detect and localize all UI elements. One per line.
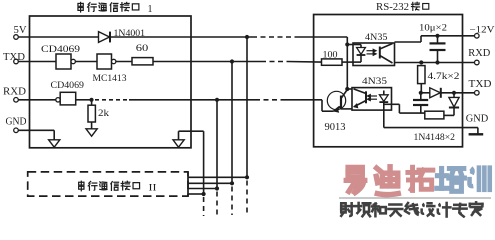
svg-text:4N35: 4N35 [362, 77, 387, 87]
svg-text:RXD: RXD [468, 48, 490, 59]
svg-text:GND: GND [6, 116, 27, 127]
svg-text:RS-232: RS-232 [376, 2, 409, 13]
svg-text:4.7k×2: 4.7k×2 [428, 72, 460, 82]
svg-text:2k: 2k [98, 109, 109, 119]
svg-text:RXD: RXD [3, 86, 26, 97]
svg-text:10μ×2: 10μ×2 [419, 23, 447, 33]
svg-text:TXD: TXD [469, 79, 492, 90]
svg-text:9013: 9013 [325, 122, 346, 133]
svg-text:GND: GND [466, 114, 489, 125]
svg-text:MC1413: MC1413 [93, 74, 127, 84]
svg-text:4N35: 4N35 [365, 33, 388, 43]
svg-text:II: II [149, 183, 157, 193]
svg-text:60: 60 [136, 44, 149, 54]
svg-text:CD4069: CD4069 [51, 81, 85, 91]
svg-text:1N4001: 1N4001 [114, 29, 146, 39]
svg-text:−12V: −12V [470, 26, 495, 36]
svg-text:1: 1 [148, 4, 153, 15]
svg-text:1N4148×2: 1N4148×2 [414, 133, 456, 143]
